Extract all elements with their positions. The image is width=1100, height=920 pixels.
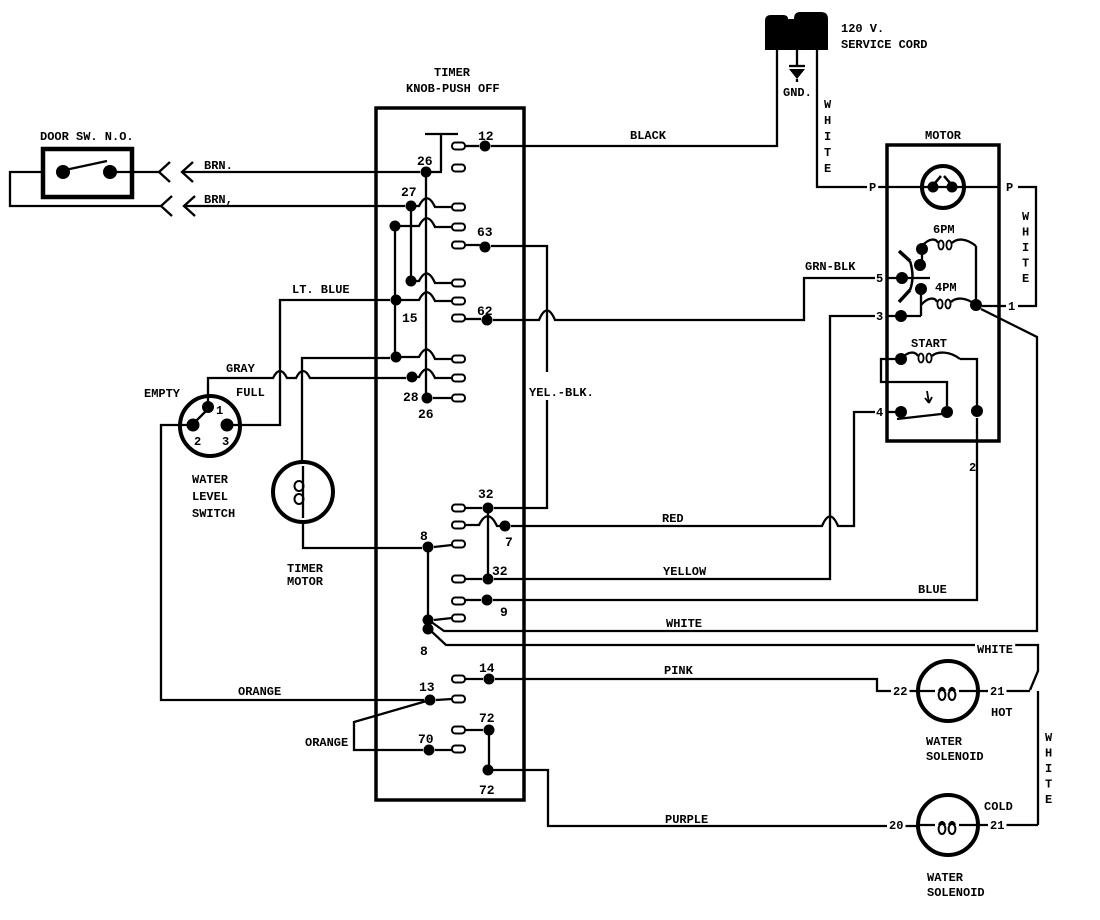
svg-text:GND.: GND. bbox=[783, 86, 812, 100]
svg-text:START: START bbox=[911, 337, 947, 351]
svg-text:W: W bbox=[824, 98, 832, 112]
svg-text:72: 72 bbox=[479, 711, 495, 726]
svg-text:YELLOW: YELLOW bbox=[663, 565, 707, 579]
svg-text:72: 72 bbox=[479, 783, 495, 798]
svg-text:8: 8 bbox=[420, 644, 428, 659]
svg-text:LT. BLUE: LT. BLUE bbox=[292, 283, 350, 297]
svg-text:8: 8 bbox=[420, 529, 428, 544]
svg-text:LEVEL: LEVEL bbox=[192, 490, 228, 504]
svg-text:21: 21 bbox=[990, 685, 1004, 699]
svg-text:I: I bbox=[1022, 241, 1029, 255]
svg-text:ORANGE: ORANGE bbox=[238, 685, 281, 699]
svg-text:21: 21 bbox=[990, 819, 1004, 833]
svg-text:5: 5 bbox=[876, 272, 883, 286]
svg-text:70: 70 bbox=[418, 732, 434, 747]
svg-text:GRN-BLK: GRN-BLK bbox=[805, 260, 856, 274]
svg-text:120 V.: 120 V. bbox=[841, 22, 884, 36]
svg-text:MOTOR: MOTOR bbox=[925, 129, 962, 143]
svg-text:14: 14 bbox=[479, 661, 495, 676]
svg-text:15: 15 bbox=[402, 311, 418, 326]
svg-text:T: T bbox=[824, 146, 831, 160]
svg-text:TIMER: TIMER bbox=[434, 66, 471, 80]
svg-text:32: 32 bbox=[478, 487, 494, 502]
svg-text:COLD: COLD bbox=[984, 800, 1013, 814]
svg-text:32: 32 bbox=[492, 564, 508, 579]
svg-text:EMPTY: EMPTY bbox=[144, 387, 181, 401]
svg-text:WATER: WATER bbox=[926, 735, 963, 749]
svg-text:GRAY: GRAY bbox=[226, 362, 256, 376]
svg-text:H: H bbox=[824, 114, 831, 128]
svg-text:26: 26 bbox=[417, 154, 433, 169]
svg-text:28: 28 bbox=[403, 390, 419, 405]
svg-text:22: 22 bbox=[893, 685, 907, 699]
svg-text:TIMER: TIMER bbox=[287, 562, 324, 576]
svg-text:20: 20 bbox=[889, 819, 903, 833]
svg-text:WATER: WATER bbox=[192, 473, 229, 487]
svg-text:T: T bbox=[1045, 778, 1052, 792]
svg-text:DOOR SW. N.O.: DOOR SW. N.O. bbox=[40, 130, 134, 144]
svg-text:2: 2 bbox=[194, 435, 201, 449]
svg-text:P: P bbox=[1006, 181, 1013, 195]
svg-text:BRN.: BRN. bbox=[204, 159, 233, 173]
svg-text:6PM: 6PM bbox=[933, 223, 955, 237]
svg-text:2: 2 bbox=[969, 461, 976, 475]
svg-text:I: I bbox=[824, 130, 831, 144]
svg-text:3: 3 bbox=[876, 310, 883, 324]
svg-text:WATER: WATER bbox=[927, 871, 964, 885]
svg-text:27: 27 bbox=[401, 185, 417, 200]
svg-text:T: T bbox=[1022, 257, 1029, 271]
svg-text:1: 1 bbox=[1008, 300, 1015, 314]
svg-text:H: H bbox=[1045, 747, 1052, 761]
svg-text:E: E bbox=[1022, 272, 1029, 286]
svg-text:RED: RED bbox=[662, 512, 684, 526]
svg-text:ORANGE: ORANGE bbox=[305, 736, 348, 750]
svg-text:BLUE: BLUE bbox=[918, 583, 947, 597]
svg-text:HOT: HOT bbox=[991, 706, 1013, 720]
svg-text:SERVICE CORD: SERVICE CORD bbox=[841, 38, 927, 52]
svg-text:PURPLE: PURPLE bbox=[665, 813, 708, 827]
svg-text:SOLENOID: SOLENOID bbox=[926, 750, 984, 764]
svg-text:3: 3 bbox=[222, 435, 229, 449]
svg-text:BRN,: BRN, bbox=[204, 193, 233, 207]
svg-text:63: 63 bbox=[477, 225, 493, 240]
svg-text:KNOB-PUSH OFF: KNOB-PUSH OFF bbox=[406, 82, 500, 96]
svg-text:9: 9 bbox=[500, 605, 508, 620]
svg-text:4PM: 4PM bbox=[935, 281, 957, 295]
svg-text:26: 26 bbox=[418, 407, 434, 422]
svg-text:7: 7 bbox=[505, 535, 513, 550]
svg-text:1: 1 bbox=[216, 404, 223, 418]
svg-text:BLACK: BLACK bbox=[630, 129, 667, 143]
svg-text:W: W bbox=[1022, 210, 1030, 224]
svg-text:YEL.-BLK.: YEL.-BLK. bbox=[529, 386, 594, 400]
svg-text:P: P bbox=[869, 181, 876, 195]
svg-text:H: H bbox=[1022, 226, 1029, 240]
svg-text:WHITE: WHITE bbox=[666, 617, 702, 631]
svg-text:E: E bbox=[824, 162, 831, 176]
svg-text:62: 62 bbox=[477, 304, 493, 319]
svg-text:E: E bbox=[1045, 793, 1052, 807]
svg-text:WHITE: WHITE bbox=[977, 643, 1013, 657]
svg-text:I: I bbox=[1045, 762, 1052, 776]
svg-text:MOTOR: MOTOR bbox=[287, 575, 324, 589]
svg-text:4: 4 bbox=[876, 406, 883, 420]
svg-text:SWITCH: SWITCH bbox=[192, 507, 235, 521]
svg-text:SOLENOID: SOLENOID bbox=[927, 886, 985, 900]
svg-text:FULL: FULL bbox=[236, 386, 265, 400]
svg-text:W: W bbox=[1045, 731, 1053, 745]
svg-text:12: 12 bbox=[478, 129, 494, 144]
svg-text:PINK: PINK bbox=[664, 664, 694, 678]
svg-text:13: 13 bbox=[419, 680, 435, 695]
